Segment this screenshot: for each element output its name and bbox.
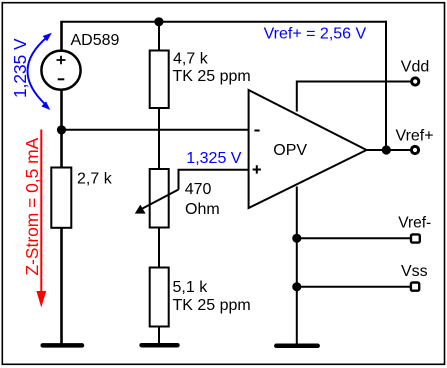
ground left bbox=[43, 343, 82, 348]
label 4,7 k bbox=[173, 51, 251, 86]
terminal Vss bbox=[401, 263, 428, 291]
ground right bbox=[276, 344, 317, 349]
junction dot Vss bbox=[292, 282, 301, 291]
voltage source AD589 bbox=[41, 51, 80, 90]
junction dot Vref- bbox=[292, 234, 301, 243]
svg-text:Vss: Vss bbox=[401, 263, 428, 280]
junction dot 4,7k top rail bbox=[154, 17, 163, 26]
annotation Z-Strom = 0,5 mA rotated bbox=[22, 137, 42, 275]
terminal Vdd bbox=[401, 59, 429, 86]
svg-text:TK 25 ppm: TK 25 ppm bbox=[173, 297, 251, 314]
svg-text:470: 470 bbox=[185, 181, 212, 198]
red current arrow bbox=[36, 130, 46, 308]
svg-text:Vref+ = 2,56 V: Vref+ = 2,56 V bbox=[264, 26, 367, 43]
terminal Vref+ bbox=[396, 127, 434, 153]
ground middle bbox=[142, 343, 178, 348]
label 470 Ohm bbox=[185, 181, 220, 218]
wire opamp output to Vref+ terminal bbox=[367, 149, 412, 151]
junction dot output node bbox=[382, 145, 391, 154]
blue arrow arc around AD589 bbox=[28, 33, 52, 110]
svg-text:2,7 k: 2,7 k bbox=[77, 171, 113, 188]
label 5,1 k bbox=[173, 279, 251, 314]
terminal Vref- bbox=[398, 215, 431, 243]
annotation Vref+ = 2,56 V bbox=[264, 26, 367, 43]
wire 5,1k bottom to ground bbox=[158, 327, 160, 346]
wire Vdd pin bbox=[296, 82, 411, 112]
wire feedback vertical bbox=[385, 21, 387, 150]
wire AD589 bottom bbox=[60, 89, 63, 131]
svg-text:OPV: OPV bbox=[273, 142, 307, 159]
wire to 2,7k top bbox=[60, 130, 63, 168]
op-amp U1 OPV bbox=[249, 90, 367, 208]
resistor R1 4,7 k bbox=[150, 51, 169, 109]
wire 4,7k bottom to pot top bbox=[158, 108, 160, 169]
label 2,7 k bbox=[77, 171, 113, 188]
label AD589 bbox=[71, 32, 120, 49]
svg-text:Vdd: Vdd bbox=[401, 59, 429, 76]
svg-text:Vref+: Vref+ bbox=[396, 127, 434, 144]
wire top rail Vref+ net bbox=[62, 21, 388, 23]
junction dot inverting rail bbox=[57, 125, 66, 134]
wire to Vref- terminal bbox=[297, 237, 412, 239]
wire 4,7k top bbox=[158, 22, 160, 51]
svg-text:AD589: AD589 bbox=[71, 32, 120, 49]
svg-text:TK 25 ppm: TK 25 ppm bbox=[173, 68, 251, 85]
svg-text:Ohm: Ohm bbox=[185, 201, 220, 218]
potentiometer 470 Ohm bbox=[135, 169, 179, 228]
wire AD589 top bbox=[60, 21, 63, 52]
resistor R3 5,1 k bbox=[150, 268, 169, 327]
wire to Vss terminal bbox=[297, 286, 412, 288]
svg-text:Vref-: Vref- bbox=[398, 215, 431, 232]
wire Vss pin to ground bbox=[296, 187, 298, 346]
wire 2,7k bottom to ground bbox=[60, 228, 63, 345]
resistor R2 2,7 k bbox=[51, 168, 71, 228]
svg-text:4,7 k: 4,7 k bbox=[173, 51, 209, 68]
wire non-inverting input bbox=[179, 169, 249, 190]
wire inverting input rail bbox=[62, 129, 249, 131]
annotation 1,235 V rotated bbox=[10, 38, 30, 98]
svg-text:Z-Strom = 0,5 mA: Z-Strom = 0,5 mA bbox=[22, 137, 42, 275]
svg-text:5,1 k: 5,1 k bbox=[173, 279, 209, 296]
wire pot bottom to 5,1k top bbox=[158, 228, 160, 268]
svg-text:1,325 V: 1,325 V bbox=[186, 150, 241, 167]
annotation 1,325 V bbox=[186, 150, 241, 167]
